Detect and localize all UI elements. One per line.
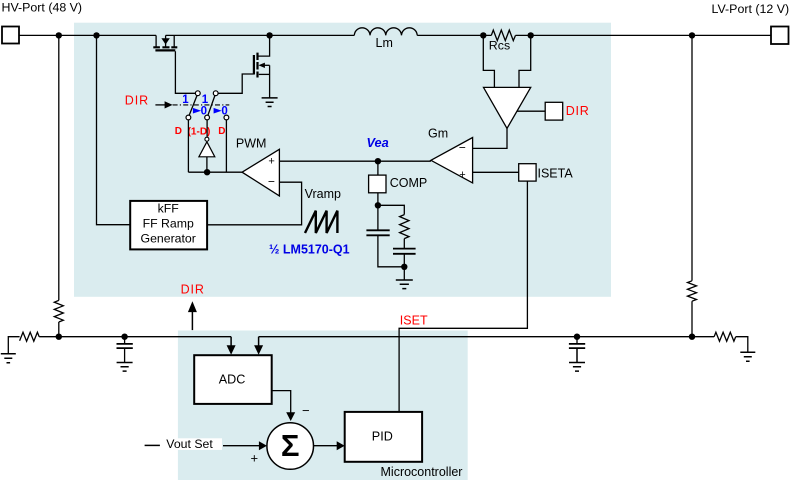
switch bottom terminal D right [224,115,229,120]
capacitor left [117,344,133,348]
block ADC [194,355,272,404]
svg-text:1: 1 [182,94,189,106]
wire CSA right lead [519,35,531,87]
svg-text:ISETA: ISETA [538,166,574,180]
wire PWM output bus [188,171,242,173]
wire CSA to DIR box [517,110,545,112]
wire Q2 source to ground [269,65,271,98]
svg-text:Vramp: Vramp [305,187,341,201]
wire HV rail left [19,34,156,36]
wire Vout Set to summer [223,445,259,447]
node dot left divider [56,334,62,340]
wire D right down [225,120,227,172]
svg-text:Microcontroller: Microcontroller [381,465,463,479]
node dot switch node [266,32,272,38]
wire COMP down [377,193,379,206]
transistor Q2 body arrow [258,63,265,68]
svg-text:DIR: DIR [566,104,590,118]
transistor Q2 gate bar [253,55,255,75]
inverter bubble [205,137,209,141]
svg-text:½ LM5170-Q1: ½ LM5170-Q1 [269,242,350,256]
DIR control arrow [155,104,165,106]
resistor HV divider [54,300,63,322]
wire CSA output down [473,128,507,148]
LM5170 controller shaded region [74,23,611,297]
transistor Q1 source lead [155,35,157,47]
wire cap left to ground [124,348,126,362]
ground cap right [569,363,585,372]
svg-text:LV-Port (12 V): LV-Port (12 V) [712,2,790,16]
pin COMP box [369,175,386,193]
switch S2 bottom terminal (1-D) [205,115,210,120]
wire mid rail right segment [259,336,714,338]
node dot Vea [375,158,381,164]
resistor left to ground [20,332,40,341]
op-amp Gm [431,138,473,183]
svg-text:kFF: kFF [158,201,180,215]
transistor Q1 body arrow [161,38,169,44]
ground Q2 [262,98,278,107]
node dot cap left [121,334,127,340]
wire divider to mid rail [58,322,60,337]
svg-text:FF Ramp: FF Ramp [143,216,194,230]
resistor right to ground [714,332,736,341]
wire Vea to PWM + [279,160,431,162]
svg-text:PID: PID [372,430,393,444]
svg-text:−: − [302,403,310,418]
node dot comp bottom [401,264,407,270]
wire S1 bottom down [187,120,189,172]
pin DIR box [545,102,563,120]
arrow ADC input 1 [230,337,232,346]
wire rail Rcs to LV port [516,34,772,36]
svg-text:Σ: Σ [281,428,300,463]
node dot Rcs right [528,32,534,38]
svg-text:ISET: ISET [400,314,428,328]
block PID [345,412,422,462]
wire Vea to COMP [377,161,379,175]
node dot right divider [689,334,695,340]
node dot PWM output [204,169,210,175]
wire comp cap branch [377,205,379,230]
svg-text:PWM: PWM [236,137,267,151]
wire HV rail mid [166,34,355,36]
resistor Rcs [491,30,515,41]
transistor Q2 source stub [259,73,270,75]
node dot cap right [574,334,580,340]
wire ISETA to Gm + [473,171,519,173]
node dot LV divider [689,32,695,38]
svg-text:COMP: COMP [390,176,428,190]
wire Q1 gate to switch [175,51,195,93]
svg-text:Vout Set: Vout Set [166,437,213,451]
arrow ADC input 2 [258,337,260,346]
transistor Q1 channel [153,46,177,48]
svg-text:−: − [459,141,466,155]
op-amp PWM comparator [242,149,279,196]
ground comp [396,280,413,289]
svg-text:DIR: DIR [181,282,205,296]
wire Q2 drain [259,35,270,56]
wire inverter to PWM line [206,157,208,172]
wire comp node to ground [403,267,405,280]
node dot comp top [375,202,381,208]
svg-text:Lm: Lm [376,36,393,50]
switch S1 top terminal [195,91,200,96]
wire comp RC branch top [378,205,404,214]
wire rail Lm to Rcs [417,34,491,36]
ground cap left [117,363,133,372]
wire Q2 gate to switch [218,74,254,93]
wire cap right to ground [576,348,578,362]
svg-text:Gm: Gm [428,127,448,141]
svg-text:D: D [175,126,182,137]
transistor Q1 drain lead [173,35,175,47]
ground left [1,354,16,363]
inductor Lm [354,28,417,36]
svg-text:DIR: DIR [125,94,149,108]
ramp waveform [305,211,337,233]
wire ADC output [272,391,291,413]
wire HV divider down [58,35,60,300]
switch S1 bottom terminal D [186,115,191,120]
wire LV divider down [691,35,693,280]
switch S2 lever [208,96,215,116]
transistor Q2 body stub [264,64,270,66]
summing junction [267,423,314,470]
transistor Q2 channel [256,53,258,78]
wire CSA left lead [483,35,494,87]
svg-text:0: 0 [221,105,227,117]
svg-text:0: 0 [201,105,207,117]
capacitor comp main [366,230,389,235]
svg-text:Vea: Vea [367,135,389,150]
wire Vramp to PWM - [207,182,302,225]
arrow DIR to controller [191,312,193,331]
wire S2 bottom down [206,120,208,137]
arrow to 0 (switch S1) [193,108,201,114]
wire mid rail left segment [39,336,231,338]
DIR dash-dot control line [173,104,230,106]
transistor Q1 body lead [165,35,167,47]
svg-text:+: + [251,450,259,465]
node dot kFF feed [93,32,99,38]
resistor comp [400,215,409,239]
svg-text:+: + [459,169,465,181]
svg-text:Rcs: Rcs [489,39,510,53]
wire right ground riser [736,337,748,353]
switch S2 top terminal [213,91,218,96]
transistor Q1 gate bar [155,49,175,51]
wire cap left lead [124,337,126,344]
block kFF FF Ramp Generator [130,201,207,250]
wire LV divider to mid rail [691,301,693,337]
HV port terminal [2,27,19,44]
wire comp cap to bottom [378,235,404,266]
svg-text:−: − [268,175,275,189]
op-amp current sense [484,87,531,128]
Vout Set dash [145,444,160,446]
wire left ground riser [8,337,19,354]
wire comp R to C [403,239,405,249]
svg-text:1: 1 [202,94,209,106]
svg-text:+: + [268,155,274,167]
node dot HV divider [56,32,62,38]
wire kFF input from HV rail [97,35,131,224]
capacitor comp RC [393,249,416,254]
switch S1 lever [189,96,197,116]
ground right [740,352,755,361]
inverter triangle [199,142,215,157]
arrow to 0 (switch S2) [214,108,222,114]
wire ISETA down to microcontroller [399,181,527,412]
wire summer to PID [314,445,338,447]
capacitor right [569,344,585,348]
svg-text:D: D [218,126,225,137]
resistor LV divider [688,281,697,301]
label Vout Set [165,438,223,450]
svg-text:Generator: Generator [141,231,196,245]
wire cap right lead [576,337,578,344]
LV port terminal [771,27,789,45]
node dot Rcs left [480,32,486,38]
microcontroller shaded region [178,331,468,481]
svg-text:HV-Port (48 V): HV-Port (48 V) [2,0,83,14]
wire comp RC to node [403,254,405,267]
arrow into summer top [286,412,295,421]
pin ISETA box [519,164,536,181]
svg-text:ADC: ADC [219,372,246,386]
